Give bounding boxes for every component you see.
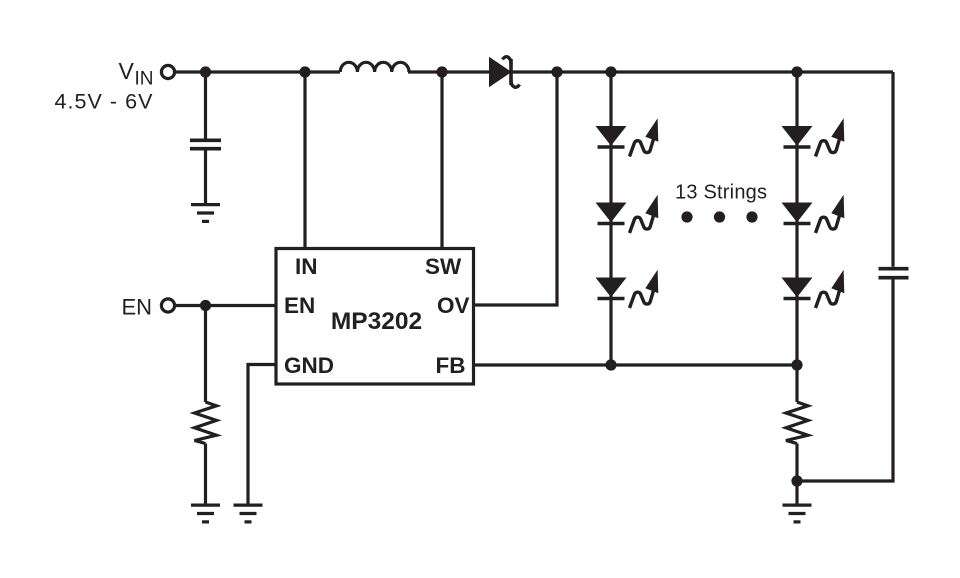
- svg-text:MP3202: MP3202: [331, 308, 422, 335]
- wire top rail left: [175, 70, 340, 73]
- svg-text:IN: IN: [135, 69, 154, 90]
- junction dot string1 bottom: [605, 359, 616, 370]
- wire EN to resistor: [204, 306, 207, 403]
- LED D4: [596, 270, 659, 308]
- svg-text:IN: IN: [295, 254, 318, 279]
- ground R1: [191, 505, 220, 522]
- svg-text:4.5V - 6V: 4.5V - 6V: [55, 90, 154, 114]
- label EN: [121, 295, 152, 320]
- svg-text:EN: EN: [284, 293, 315, 318]
- junction dot EN: [200, 300, 211, 311]
- ground C1: [191, 205, 220, 222]
- resistor R2: [786, 402, 808, 444]
- wire FB pin: [474, 363, 798, 366]
- terminal VIN: [161, 65, 174, 78]
- terminal EN: [161, 299, 174, 312]
- wire OV pin: [474, 72, 558, 305]
- junction dot OV: [551, 66, 562, 77]
- LED D2: [596, 118, 659, 156]
- svg-text:EN: EN: [121, 295, 152, 320]
- label 4.5V - 6V: [55, 90, 154, 114]
- svg-text:OV: OV: [437, 293, 470, 318]
- capacitor C2: [879, 269, 909, 278]
- resistor R1: [195, 402, 217, 444]
- junction dot R2/right rail: [791, 475, 802, 486]
- junction dot string2 top: [791, 66, 802, 77]
- svg-text:SW: SW: [425, 254, 462, 279]
- LED D3: [596, 195, 659, 233]
- wire right rail upper: [891, 72, 894, 267]
- wire resistor to ground: [204, 444, 207, 504]
- diode D1 schottky: [489, 57, 520, 88]
- junction dot VIN/C1: [200, 66, 211, 77]
- wire SW pin: [440, 72, 443, 249]
- svg-text:FB: FB: [436, 353, 466, 378]
- wire right rail lower: [797, 280, 893, 482]
- junction dot string1 top: [605, 66, 616, 77]
- LED D7: [782, 270, 845, 308]
- LED D5: [782, 118, 845, 156]
- wire LED string 2: [795, 72, 798, 365]
- LED D6: [782, 195, 845, 233]
- wire LED string 1: [609, 72, 612, 365]
- op-amp U1 MP3202: [276, 249, 474, 385]
- wire GND pin: [248, 365, 276, 504]
- label VIN: [119, 58, 154, 90]
- ground U1: [234, 505, 263, 522]
- svg-text:13 Strings: 13 Strings: [675, 182, 767, 204]
- label 13 Strings: [675, 182, 767, 204]
- inductor L1: [340, 62, 409, 72]
- node dots ellipsis: [681, 211, 757, 222]
- wire resistor R2 bottom: [795, 444, 798, 504]
- svg-text:V: V: [119, 58, 135, 84]
- wire C1 bottom: [204, 151, 207, 204]
- wire C1 top: [204, 72, 207, 139]
- junction dot string2 FB: [791, 359, 802, 370]
- junction dot SW: [436, 66, 447, 77]
- junction dot IN: [299, 66, 310, 77]
- capacitor C1: [190, 140, 221, 148]
- svg-text:GND: GND: [284, 353, 334, 378]
- ground R2: [783, 505, 812, 522]
- wire top rail right of inductor: [408, 70, 893, 73]
- wire FB to resistor: [795, 365, 798, 402]
- wire IN pin: [303, 72, 306, 249]
- wire EN pin: [175, 304, 276, 307]
